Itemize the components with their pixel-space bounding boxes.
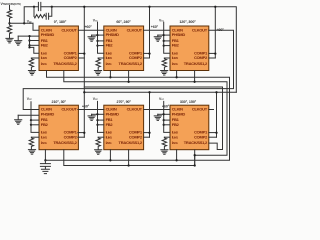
wire PHSMD U4 gnd line [18,114,39,116]
wire COMP2 U1 stub [78,57,84,59]
node IAVG U6 dot [175,159,177,161]
node U4 FB dots [30,119,32,121]
svg-text:60°, 240°: 60°, 240° [116,20,131,24]
wire CLKOUT U4 to CLKIN U5 [78,109,104,111]
wire COMP2 U6 stub [209,136,217,138]
wire TRACK U2 stub [128,71,130,82]
wire TRACK bus top [64,71,227,156]
svg-text:+90°: +90° [216,28,224,32]
wire COMP2 U4 stub [78,136,84,138]
ground (U1 ILIM) [28,71,35,76]
svg-text:COMP2: COMP2 [129,134,143,139]
wire FB2 U6 stub [164,124,170,126]
wire FB1 U5 stub [98,119,104,121]
wire CLKOUT U2 to CLKIN U3 [144,29,170,31]
svg-text:TRACK/SS1,2: TRACK/SS1,2 [53,140,77,145]
svg-text:PHSMD: PHSMD [106,111,120,116]
node IAVG U2 dot [109,76,111,78]
ground (U6 PHSMD) [154,114,161,120]
ground (U2 PHSMD) [88,35,95,41]
wire comp rail left riser [24,7,38,24]
IC U2 LTC3861 (60deg/240deg) [104,26,144,71]
node IAVG U5 dot [109,159,111,161]
svg-text:TRACK/SS1,2: TRACK/SS1,2 [119,140,143,145]
svg-text:CLKOUT: CLKOUT [61,27,77,32]
node IAVG bottom cap dot [44,159,46,161]
wire COMP rail [41,7,237,93]
svg-text:270°, 90°: 270°, 90° [117,100,132,104]
capacitor C1 (comp feedforward) [38,2,40,10]
wire IAVG U3 stub [176,71,178,78]
wire VCC U2 tree [98,22,104,53]
resistor RA (divider top) [7,10,11,23]
wire IAVG U5 stub [109,150,111,161]
resistor R_ILIM U6 [162,137,166,149]
wire TRACK riser U6 [194,155,196,165]
wire COMP1 U5 stub [144,132,150,134]
node comp junction dot [23,22,25,24]
wire TRACK U5 stub [128,150,130,166]
svg-text:+60°: +60° [162,104,170,108]
wire COMP vertical V2 top [149,7,151,58]
wire FB1 U4 stub [31,119,39,121]
wire VCC U5 tree [98,101,104,132]
resistor RB (divider bottom) [7,23,11,38]
wire ILIM1 U6 stub [164,136,170,138]
IC U1 LTC3861 (0deg/180deg) [39,26,78,71]
wire VCC U1 stem [29,22,31,25]
wire COMP vertical V3 bottom [216,92,218,137]
wire CLKOUT U6 stub [209,109,214,111]
wire PHSMD U6 gnd line [158,113,170,115]
ground (U6 ILIM) [161,150,168,155]
wire COMP2 U5 stub [144,136,150,138]
wire FB1 U6 stub [164,119,170,121]
svg-text:TRACK/SS1,2: TRACK/SS1,2 [53,61,77,66]
wire TRACK/SS line3 (U6 right pin riser) [84,87,222,150]
wire comp RC branch down [33,7,35,16]
wire FB2 U3 stub [164,45,170,47]
wire PHSMD U5 gnd line [92,113,104,115]
svg-text:+60°: +60° [82,105,90,109]
wire FB1 U1 stub [30,40,40,42]
wire COMP1 U1 stub [78,52,84,54]
IC U3 LTC3861 (120deg/300deg) [170,26,209,71]
wire PHSMD U2 gnd line [92,34,104,36]
wire ILIM1 U3 stub [164,57,170,59]
wire CLKOUT U5 to CLKIN U6 [144,109,170,111]
ground (U3 PHSMD) [154,35,161,41]
capacitor C_IAVG [40,160,50,169]
node V3 rail dot [214,6,216,8]
svg-text:CLKOUT: CLKOUT [192,107,208,112]
svg-text:PHSMD: PHSMD [172,32,186,37]
svg-text:FB2: FB2 [172,43,180,48]
wire IAVG bus (top row to bottom row) [45,71,229,161]
svg-text:COMP2: COMP2 [129,55,143,60]
IC U4 LTC3861 (210deg/30deg) [39,105,78,150]
node U6 FB dots [163,119,165,121]
node U3 FB dots [163,40,165,42]
node U2 PHSMD dot [96,34,98,36]
node FB tap dot [8,22,10,24]
svg-text:FB2: FB2 [106,122,114,127]
wire U1 FB tree [30,36,40,53]
node V3 bus dot [215,91,217,93]
wire FB tap horizontal [10,22,34,24]
ground (U2 ILIM) [94,71,101,76]
node U2 COMP dots [148,52,150,54]
svg-text:PHSMD: PHSMD [106,32,120,37]
wire TRACK bus bottom [64,150,195,166]
ground (C_IAVG) [41,169,49,173]
svg-text:TRACK/SS1,2: TRACK/SS1,2 [184,140,208,145]
node V2 bus dot [148,91,150,93]
wire COMP bottom bus [84,91,236,93]
ground (U1 PHSMD) [15,36,22,45]
wire CLKIN U1 feed [33,23,39,30]
svg-text:PHSMD: PHSMD [172,111,186,116]
node TRACK U5 dot [127,164,129,166]
svg-text:PHSMD: PHSMD [41,32,55,37]
node U6 PHSMD dot [162,113,164,115]
svg-text:FB2: FB2 [172,122,180,127]
svg-text:COMP2: COMP2 [64,134,78,139]
wire ILIM1 U4 stub [31,136,39,138]
node U6 COMP dots [215,132,217,134]
node U5 FB dots [96,119,98,121]
svg-text:CLKOUT: CLKOUT [127,107,143,112]
node U1 tree dots [28,35,30,37]
svg-text:CLKOUT: CLKOUT [127,27,143,32]
wire FB2 U1 stub [30,44,40,46]
svg-text:COMP2: COMP2 [64,55,78,60]
resistor R_ILIM U1 [29,58,33,70]
svg-text:FB2: FB2 [41,122,49,127]
ground (U5 ILIM) [95,150,102,155]
svg-text:PHSMD: PHSMD [41,111,55,116]
node TRACK U3 dot [193,81,195,83]
wire COMP vertical V1 [83,7,85,137]
node V2 rail dot [148,6,150,8]
svg-text:FB2: FB2 [41,43,49,48]
IC U5 LTC3861 (270deg/90deg) [104,105,144,150]
wire VCC U4 tree [31,102,39,133]
svg-text:0°, 180°: 0°, 180° [54,20,67,24]
wire FB1 U2 stub [98,40,104,42]
node COMP bottom left dot [83,91,85,93]
wire VOUT to divider [9,6,11,10]
svg-text:+60°: +60° [84,25,92,29]
wire FB2 U2 stub [98,45,104,47]
svg-text:CLKOUT: CLKOUT [192,27,208,32]
wire ILIM1 U1 stub [31,57,39,59]
ground (divider) [6,38,13,43]
wire FB2 U5 stub [98,124,104,126]
wire CLKOUT U1 to CLKIN U2 [78,29,103,31]
resistor R_ILIM U3 [162,58,166,70]
wire ILIM1 U5 stub [98,136,104,138]
node U5 PHSMD dot [96,113,98,115]
wire TRACK U3 stub [194,71,196,82]
wire COMP1 U3 stub [209,52,216,54]
node rail B dot [51,6,53,8]
node U3 PHSMD dot [162,34,164,36]
node U2 FB dots [96,40,98,42]
capacitor C2 (comp) [46,13,48,19]
node U4 COMP dots [83,132,85,134]
wire CLKOUT U3 wrap to CLKIN U4 [23,30,233,109]
ground (U4 PHSMD) [15,115,22,124]
wire PHSMD U1 gnd line [18,35,39,37]
ground (U4 ILIM) [28,150,35,155]
wire COMP2 U2 stub [144,57,150,59]
wire comp RC to rail [49,7,52,16]
wire COMP vertical V3 top [214,7,216,58]
wire PHSMD U3 gnd line [158,34,170,36]
node U1 COMP dots [83,52,85,54]
resistor R_ILIM U4 [29,137,33,149]
svg-text:COMP2: COMP2 [194,55,208,60]
node IAVG U3 dot [175,76,177,78]
node TRACK U2 dot [127,81,129,83]
svg-text:330°, 150°: 330°, 150° [180,100,197,104]
svg-text:+60°: +60° [151,25,159,29]
wire IAVG U2 stub [109,71,111,78]
wire COMP1 U4 stub [78,132,84,134]
wire ILIM1 U2 stub [98,57,104,59]
resistor RC (comp) [34,15,45,18]
wire FB2 U4 stub [31,124,39,126]
ground (U3 ILIM) [161,71,168,76]
resistor R_ILIM U5 [96,137,100,149]
svg-text:TRACK/SS1,2: TRACK/SS1,2 [184,61,208,66]
wire COMP1 U6 stub [209,132,217,134]
svg-text:TRACK/SS1,2: TRACK/SS1,2 [119,61,143,66]
svg-text:210°, 30°: 210°, 30° [52,100,67,104]
node TRACK riser dots [194,154,196,156]
svg-text:COMP2: COMP2 [194,134,208,139]
wire COMP vertical V2 bottom [149,92,151,137]
wire VCC U3 tree [164,22,170,53]
wire VCC U6 tree [164,101,170,132]
svg-text:FB2: FB2 [106,43,114,48]
svg-text:CLKOUT: CLKOUT [61,107,77,112]
node U5 COMP dots [148,132,150,134]
wire FB1 U3 stub [164,40,170,42]
wire COMP1 U2 stub [144,52,150,54]
IC U6 LTC3861 (330deg/150deg) [170,105,209,150]
ground (U5 PHSMD) [88,114,95,120]
resistor R_ILIM U2 [96,58,100,70]
svg-text:120°, 300°: 120°, 300° [179,20,196,24]
node V1 rail dot [83,6,85,8]
wire IAVG U6 stub [176,150,178,161]
node rail A dot [33,6,35,8]
wire COMP2 U3 stub [209,57,216,59]
node U3 COMP dots [214,52,216,54]
